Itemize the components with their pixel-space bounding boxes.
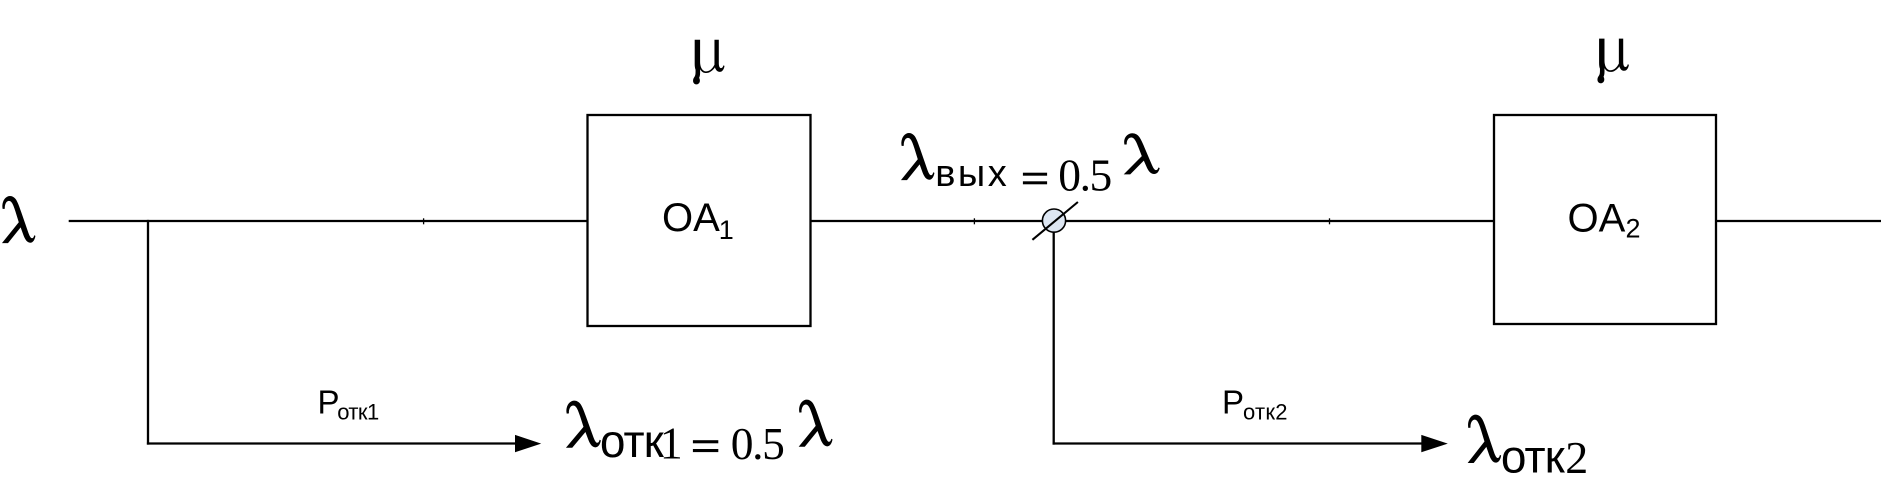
- wire: branch 2 horizontal run: [1053, 442, 1423, 444]
- svg-text:1: 1: [719, 215, 734, 245]
- wire: branch 1 horizontal run: [147, 442, 517, 444]
- label lambda_otk1 formula: main lambda: [566, 401, 601, 448]
- wire: splitter node to block OA2: [1066, 220, 1496, 222]
- svg-text:2: 2: [1626, 214, 1641, 244]
- svg-text:0.5: 0.5: [731, 418, 785, 469]
- wire junction tick on input segment: [423, 218, 425, 224]
- node: splitter slash: [1032, 202, 1078, 240]
- wire: output segment after OA2: [1715, 220, 1881, 222]
- block OA1: [588, 115, 811, 326]
- wire junction tick after OA1: [973, 218, 975, 224]
- svg-text:2: 2: [1565, 432, 1588, 483]
- label lambda_otk2 formula: main lambda: [1468, 415, 1501, 463]
- label lambda_vyh formula: equals sign: [1023, 173, 1047, 176]
- svg-text:0.5: 0.5: [1058, 150, 1112, 201]
- label lambda_vyh formula: trailing lambda: [1124, 133, 1160, 174]
- label lambda input: [2, 196, 35, 243]
- svg-text:вых: вых: [935, 153, 1007, 195]
- wire: input segment from lambda to block OA1: [69, 220, 589, 222]
- wire: OA1 to splitter node: [810, 220, 1044, 222]
- label lambda_otk1 formula: trailing lambda: [799, 400, 833, 447]
- label lambda_otk1 formula: equals sign: [693, 440, 718, 443]
- wire: branch 1 vertical drop: [147, 220, 149, 445]
- svg-text:1: 1: [660, 418, 683, 469]
- node: splitter coupler circle: [1042, 209, 1065, 232]
- block OA2: [1494, 115, 1716, 324]
- label mu over OA2: [1597, 39, 1628, 84]
- label mu over OA1: [693, 40, 724, 85]
- arrowhead of branch 1: [515, 435, 541, 452]
- svg-text:отк2: отк2: [1243, 399, 1288, 424]
- wire junction tick before OA2: [1329, 218, 1331, 224]
- svg-text:P: P: [1222, 384, 1244, 421]
- svg-text:отк1: отк1: [337, 399, 379, 424]
- wire: branch 2 vertical drop from splitter node: [1053, 230, 1055, 445]
- svg-text:отк: отк: [1501, 431, 1566, 483]
- svg-text:OA: OA: [1568, 197, 1626, 241]
- svg-text:отк: отк: [600, 415, 665, 467]
- svg-text:OA: OA: [662, 196, 720, 240]
- label lambda_vyh formula: main lambda: [901, 133, 934, 180]
- arrowhead of branch 2: [1421, 435, 1448, 452]
